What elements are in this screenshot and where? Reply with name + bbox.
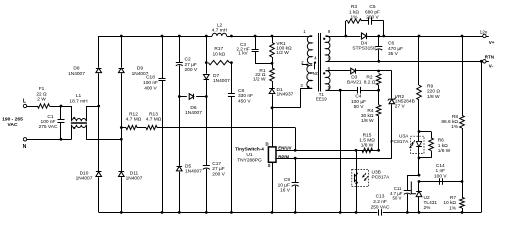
svg-text:N: N <box>23 144 27 150</box>
node D3-R2 <box>377 70 380 73</box>
resistor R6 <box>419 131 431 133</box>
transformer core <box>318 33 320 92</box>
svg-text:U3B: U3B <box>372 169 381 175</box>
svg-text:1%: 1% <box>351 15 359 21</box>
diode D8 <box>98 36 100 67</box>
svg-text:L1: L1 <box>76 93 82 99</box>
svg-text:10 kΩ: 10 kΩ <box>443 200 456 206</box>
svg-text:100 µF: 100 µF <box>351 99 366 105</box>
svg-text:C1: C1 <box>47 114 53 120</box>
common mode choke L1 <box>71 106 73 121</box>
wire pin9 to D4 <box>326 36 361 38</box>
input terminal N <box>23 138 26 141</box>
wire to VR2 <box>379 70 392 72</box>
optocoupler U3A LED <box>411 136 424 153</box>
node rail R17 left <box>205 35 208 38</box>
diode D5 <box>179 97 181 166</box>
svg-text:D3: D3 <box>351 74 357 80</box>
svg-text:1N4007: 1N4007 <box>126 176 143 182</box>
svg-text:1/8 W: 1/8 W <box>361 143 374 149</box>
fusible resistor F1 <box>38 104 50 108</box>
shunt regulator U2 TL431 <box>418 182 420 192</box>
svg-text:C8: C8 <box>238 88 244 94</box>
svg-text:1N4007: 1N4007 <box>185 110 202 116</box>
node R12 tap <box>120 126 123 129</box>
node C3 rail <box>254 35 257 38</box>
svg-text:1/2 W: 1/2 W <box>253 77 266 83</box>
svg-text:190 - 265: 190 - 265 <box>2 117 23 123</box>
diode D1 <box>269 88 275 90</box>
svg-text:D5: D5 <box>185 163 191 169</box>
node C1 top <box>60 105 63 108</box>
capacitor C8 <box>231 63 233 94</box>
C14 line <box>419 181 462 183</box>
diode D3 <box>355 68 357 74</box>
snubber R3 C5 <box>345 21 347 36</box>
svg-text:22 Ω: 22 Ω <box>36 91 47 97</box>
svg-text:C5: C5 <box>369 4 375 10</box>
svg-text:C9: C9 <box>284 177 290 183</box>
node bias+ <box>377 89 380 92</box>
svg-text:330 nF: 330 nF <box>238 93 253 99</box>
svg-text:PC817A: PC817A <box>372 175 391 181</box>
node C3-VR1-R1 <box>271 62 274 65</box>
top rail wire <box>99 36 207 38</box>
resistor R9 <box>418 36 420 85</box>
svg-text:R3: R3 <box>351 4 357 10</box>
optocoupler U3B <box>356 150 358 212</box>
diode D11 <box>121 128 123 172</box>
svg-text:50 V: 50 V <box>392 195 401 200</box>
pin 2 stub <box>302 64 308 66</box>
svg-text:1%: 1% <box>449 206 457 212</box>
svg-text:TNY288PG: TNY288PG <box>237 157 262 163</box>
node C6 top <box>377 35 380 38</box>
resistor R12 <box>121 127 126 129</box>
bottom rail right of C13 <box>383 212 482 214</box>
resistor R8 <box>462 36 464 115</box>
wire bias return <box>340 90 342 212</box>
TinySwitch-4 U1 <box>268 147 276 162</box>
capacitor C3 <box>255 36 257 49</box>
svg-text:D7: D7 <box>213 73 219 79</box>
transformer T1 primary winding <box>307 36 312 64</box>
svg-text:C18: C18 <box>146 74 155 80</box>
svg-text:R17: R17 <box>214 46 223 52</box>
capacitor C4 <box>340 90 358 92</box>
node N line / D11 <box>120 138 123 141</box>
output terminal V- <box>480 60 483 63</box>
node BP-C9 <box>294 157 297 160</box>
svg-text:250 VAC: 250 VAC <box>371 204 390 210</box>
svg-text:1 kV: 1 kV <box>238 51 248 56</box>
wire F1 to C1 node <box>50 106 72 108</box>
wire L to F1 <box>27 106 38 108</box>
svg-text:R13: R13 <box>149 111 158 117</box>
svg-text:1/8 W: 1/8 W <box>427 94 440 100</box>
resistor R15 <box>362 148 373 152</box>
svg-text:1/2 W: 1/2 W <box>276 50 289 56</box>
svg-text:200 V: 200 V <box>366 15 379 21</box>
svg-text:470 µF: 470 µF <box>388 46 403 52</box>
RTN wire <box>326 61 489 63</box>
svg-text:V-: V- <box>489 64 494 69</box>
svg-text:12v: 12v <box>480 29 488 35</box>
resistor R7 <box>462 182 464 198</box>
svg-text:VAC: VAC <box>8 122 18 128</box>
svg-text:27 µF: 27 µF <box>212 166 224 172</box>
svg-text:EN/UV: EN/UV <box>278 146 291 151</box>
node C1 bottom <box>60 138 63 141</box>
V+ rail wire <box>367 36 489 38</box>
svg-text:D8: D8 <box>73 65 79 71</box>
svg-text:4.7 MΩ: 4.7 MΩ <box>126 117 142 123</box>
svg-text:1N4007: 1N4007 <box>76 176 93 182</box>
node U3A top <box>418 130 421 133</box>
svg-text:4.7 mH: 4.7 mH <box>212 28 228 34</box>
svg-text:220 Ω: 220 Ω <box>427 89 440 95</box>
bottom rail wire <box>99 212 378 214</box>
svg-text:1/8 W: 1/8 W <box>361 118 374 124</box>
node C11 link <box>418 174 421 177</box>
svg-text:U1: U1 <box>246 152 252 158</box>
wire drain to U1 <box>272 108 274 147</box>
svg-text:C4: C4 <box>355 94 361 100</box>
resistor VR1 <box>272 36 274 43</box>
node ENUV-R12 <box>294 149 297 152</box>
svg-text:F1: F1 <box>39 86 45 92</box>
node drain <box>271 106 274 109</box>
svg-text:D: D <box>265 141 268 146</box>
wire L1 to bridge (N) <box>86 139 121 141</box>
node C14 left <box>418 180 421 183</box>
node D9 top rail <box>120 35 123 38</box>
EN/UV wire <box>276 150 379 152</box>
secondary ground column <box>481 61 483 212</box>
svg-text:35 V: 35 V <box>388 51 399 57</box>
diode D4 <box>366 33 368 39</box>
svg-text:C14: C14 <box>436 163 445 169</box>
pin6 wire <box>326 70 351 72</box>
node D6 anode <box>178 95 181 98</box>
node rail L2 right <box>230 35 233 38</box>
svg-text:400 V: 400 V <box>144 86 157 92</box>
diode D6 <box>179 96 187 98</box>
svg-text:C13: C13 <box>376 194 385 200</box>
svg-text:D9: D9 <box>137 65 143 71</box>
zener VR2 <box>391 71 393 98</box>
svg-text:1 kΩ: 1 kΩ <box>438 143 448 149</box>
svg-text:680 pF: 680 pF <box>365 9 380 15</box>
svg-text:450 V: 450 V <box>238 98 251 104</box>
diode D9 <box>121 36 123 67</box>
svg-text:V+: V+ <box>489 40 495 45</box>
svg-text:100 nF: 100 nF <box>41 119 56 125</box>
svg-text:2.2 nF: 2.2 nF <box>373 199 387 205</box>
capacitor C6 <box>378 36 380 47</box>
diode D7 <box>206 63 208 74</box>
node U3A bottom <box>418 157 421 160</box>
transformer secondary winding <box>326 36 330 62</box>
svg-text:10 µF: 10 µF <box>278 182 290 188</box>
svg-text:R12: R12 <box>129 111 138 117</box>
capacitor C18 <box>161 35 164 38</box>
svg-text:200 V: 200 V <box>185 67 198 73</box>
capacitor C9 <box>295 158 297 183</box>
wire N line <box>27 139 72 141</box>
svg-text:27 V: 27 V <box>395 103 406 109</box>
node R9 top <box>418 35 421 38</box>
node R15-R4 <box>377 149 380 152</box>
svg-text:R6: R6 <box>438 138 444 144</box>
capacitor C14 <box>439 178 441 185</box>
svg-text:C6: C6 <box>388 41 394 47</box>
C11 link wire <box>407 175 419 177</box>
BP/M wire <box>276 158 392 160</box>
capacitor C1 <box>60 106 62 120</box>
svg-text:1N4937: 1N4937 <box>277 92 294 98</box>
node pin5 <box>339 89 342 92</box>
diode D10 <box>98 106 100 171</box>
node snubber left <box>344 35 347 38</box>
wire R12-R13 <box>137 127 146 129</box>
pin5 wire <box>326 90 341 92</box>
svg-text:U3A: U3A <box>399 134 409 140</box>
node D11 bottom <box>120 211 123 214</box>
wire source to ground <box>272 162 274 212</box>
svg-text:PC817A: PC817A <box>390 139 409 145</box>
node divider rail <box>461 35 464 38</box>
resistor R1 <box>272 63 274 68</box>
wire U3B emitter to ground <box>355 211 358 214</box>
capacitor C11 <box>407 175 409 191</box>
svg-text:RTN: RTN <box>485 54 494 59</box>
svg-text:C2: C2 <box>185 57 191 63</box>
svg-text:1 kΩ: 1 kΩ <box>349 9 359 15</box>
resistor R13 <box>146 125 157 129</box>
svg-text:R2: R2 <box>366 74 372 80</box>
node snubber right <box>382 35 385 38</box>
capacitor C2 <box>178 35 181 38</box>
node divider mid <box>461 180 464 183</box>
svg-text:100 V: 100 V <box>434 173 447 179</box>
svg-text:18.7 mH: 18.7 mH <box>69 98 88 104</box>
svg-text:8.2 Ω: 8.2 Ω <box>364 80 376 86</box>
node D8 anode / L line <box>97 105 100 108</box>
svg-text:2%: 2% <box>424 205 432 211</box>
resistor R4 <box>378 90 380 105</box>
svg-text:L2: L2 <box>217 22 223 28</box>
input terminal L <box>23 104 26 107</box>
wire R13 to EN/UV <box>157 127 295 129</box>
svg-text:STPS3150: STPS3150 <box>352 46 376 52</box>
top rail wire to transformer <box>231 36 312 38</box>
svg-text:2 W: 2 W <box>37 97 46 103</box>
svg-text:275 VAC: 275 VAC <box>39 124 58 130</box>
svg-text:C17: C17 <box>212 161 221 167</box>
svg-text:100 nF: 100 nF <box>143 80 158 86</box>
svg-text:27 µF: 27 µF <box>185 62 197 68</box>
primary phase dot <box>307 86 309 88</box>
svg-text:200 V: 200 V <box>212 172 225 178</box>
svg-text:R9: R9 <box>427 83 433 89</box>
svg-text:BAV21: BAV21 <box>347 80 362 86</box>
pin 4 NC stub <box>314 61 316 63</box>
svg-text:1 nF: 1 nF <box>435 168 445 174</box>
transformer bias winding <box>326 71 331 91</box>
svg-text:10 kΩ: 10 kΩ <box>212 51 225 57</box>
output terminal V+ <box>483 34 486 37</box>
svg-text:1N4007: 1N4007 <box>213 78 230 84</box>
wire pin3 to drain <box>301 88 313 90</box>
inductor L2 <box>212 33 226 36</box>
svg-text:50 V: 50 V <box>354 104 365 110</box>
capacitor C17 <box>206 97 208 166</box>
node clamp rail <box>271 35 274 38</box>
svg-text:1%: 1% <box>451 124 459 130</box>
node D6 cathode <box>205 95 208 98</box>
svg-text:16 V: 16 V <box>280 188 291 194</box>
resistor R2 <box>376 74 381 85</box>
svg-text:1/8 W: 1/8 W <box>438 148 451 154</box>
svg-text:TinySwitch-4: TinySwitch-4 <box>235 147 264 152</box>
svg-text:D4: D4 <box>361 40 367 46</box>
svg-text:R7: R7 <box>450 195 456 201</box>
svg-text:1N4007: 1N4007 <box>185 169 202 175</box>
node U3B collector <box>355 149 358 152</box>
svg-text:4.7 MΩ: 4.7 MΩ <box>146 117 162 123</box>
capacitor C13 <box>378 209 380 215</box>
wire U3A to C11 node <box>418 158 420 175</box>
svg-text:1N4007: 1N4007 <box>68 71 85 77</box>
svg-text:S: S <box>268 163 271 168</box>
svg-text:EE19: EE19 <box>316 97 327 102</box>
wire L1 to bridge (L) <box>86 106 99 108</box>
resistor R17 <box>206 36 208 63</box>
